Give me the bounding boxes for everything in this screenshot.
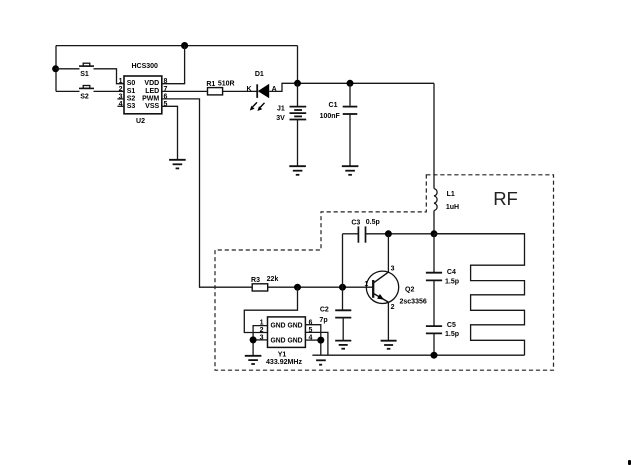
IC U2 HCS300 body: [124, 63, 162, 125]
svg-text:U2: U2: [136, 118, 145, 125]
node junction dot Y1 right ground bus: [317, 337, 324, 344]
svg-text:510R: 510R: [218, 81, 235, 88]
wire S1 row left: [56, 68, 80, 70]
U2 pin number 2: [119, 86, 123, 93]
U2 pin name S2: [127, 96, 136, 103]
node junction dot collector / RF rail: [385, 230, 392, 237]
node junction dot bottom rail / C5 column: [431, 352, 438, 359]
wire Y1 pin3 stub: [253, 339, 267, 341]
wire power rail to antenna column: [298, 82, 435, 84]
svg-text:5: 5: [164, 101, 168, 108]
wire Q2 collector up to RF rail: [387, 234, 389, 272]
capacitor C5 1.5p: [426, 280, 459, 355]
wire left vertical bus: [55, 46, 57, 92]
switch S1: [79, 63, 94, 78]
svg-text:1: 1: [364, 281, 368, 288]
svg-text:S1: S1: [127, 88, 136, 95]
wire U2 pin8 to top rail: [162, 46, 185, 84]
U2 pin name S1: [127, 88, 136, 95]
Y1 pin number 1: [260, 320, 264, 327]
wire C3/C2 column (collector feedback to base): [342, 234, 344, 310]
node junction dot power rail / battery: [294, 80, 301, 87]
wire L1 bottom to RF rail: [433, 211, 435, 234]
battery J1 3V: [276, 83, 306, 166]
node junction dot top rail / VDD tap: [181, 42, 188, 49]
svg-text:3V: 3V: [276, 115, 285, 122]
wire U2 pin3 stub: [117, 98, 124, 100]
U2 pin number 3: [119, 94, 123, 101]
svg-text:VSS: VSS: [145, 103, 159, 110]
wire Q2 emitter down to ground: [387, 303, 389, 341]
wire D1 anode jog up to power rail: [269, 83, 297, 91]
svg-text:2: 2: [391, 304, 395, 311]
wire bottom ground rail: [312, 354, 524, 356]
svg-text:Q2: Q2: [405, 287, 414, 294]
svg-text:1.5p: 1.5p: [445, 331, 459, 338]
ground Y1 left: [245, 356, 262, 364]
svg-text:VDD: VDD: [144, 80, 159, 87]
wire RF top rail C3 row: [343, 233, 359, 235]
svg-text:LED: LED: [145, 88, 159, 95]
antenna meander trace: [434, 234, 525, 355]
svg-text:R3: R3: [251, 277, 260, 284]
svg-text:L1: L1: [447, 191, 455, 198]
svg-text:0.5p: 0.5p: [366, 219, 380, 226]
capacitor C4 1.5p: [426, 234, 459, 286]
wire U2 pin7 to R1: [162, 90, 208, 92]
ground Q2 emitter: [381, 341, 397, 349]
U2 pin name VSS: [145, 103, 159, 110]
Y1 pin number 6: [309, 320, 313, 327]
U2 pin number 7: [164, 86, 168, 93]
wire R1 to D1 cathode: [223, 90, 257, 92]
node junction dot L1 / RF rail: [431, 230, 438, 237]
wire U2 pin4 stub: [117, 105, 124, 107]
net label RF: [493, 188, 518, 209]
svg-text:22k: 22k: [267, 276, 279, 283]
svg-text:S1: S1: [80, 71, 89, 78]
wire S2 row right to U2 pin2: [94, 90, 125, 92]
U2 pin number 8: [164, 78, 168, 85]
svg-text:1.5p: 1.5p: [445, 278, 459, 285]
crystal Y1 433.92MHz: [266, 317, 305, 366]
node junction dot Y1 left ground bus: [250, 336, 257, 343]
U2 pin name PWM: [142, 96, 159, 103]
svg-text:HCS300: HCS300: [131, 63, 158, 70]
inductor L1 1uH: [434, 189, 459, 211]
svg-text:3: 3: [260, 335, 264, 342]
svg-text:C1: C1: [329, 102, 338, 109]
wire R3 to base node: [268, 286, 373, 288]
ground Y1 right below rail: [316, 360, 326, 364]
svg-text:C4: C4: [447, 269, 456, 276]
svg-text:J1: J1: [277, 106, 285, 113]
svg-text:C5: C5: [447, 322, 456, 329]
U2 pin name S0: [127, 80, 136, 87]
svg-text:C2: C2: [320, 307, 329, 314]
node junction dot at left bus / S1 row: [52, 65, 59, 72]
ground J1: [289, 166, 306, 175]
wire Y1 pin4 to right ground bus: [305, 339, 320, 341]
svg-text:S3: S3: [127, 103, 136, 110]
U2 pin number 6: [164, 94, 168, 101]
U2 pin number 4: [119, 101, 123, 108]
svg-text:GND GND: GND GND: [271, 322, 303, 329]
resistor R3 22k: [251, 276, 278, 291]
svg-text:433.92MHz: 433.92MHz: [266, 359, 303, 366]
svg-text:S0: S0: [127, 80, 136, 87]
wire C3 to collector node and L1 node: [366, 233, 525, 235]
svg-text:Y1: Y1: [278, 351, 287, 358]
svg-text:GND GND: GND GND: [271, 337, 303, 344]
wire top rail from S1/S2 node to battery column: [56, 45, 298, 47]
RF dashed enclosure: [215, 175, 554, 370]
capacitor C3 0.5p: [351, 219, 379, 243]
Y1 pin number 2: [260, 327, 264, 334]
node junction dot power rail / C1: [347, 80, 354, 87]
capacitor C2 7p: [319, 307, 351, 341]
ground C1: [342, 166, 359, 175]
wire S2 row left: [56, 90, 80, 92]
U2 pin number 5: [164, 101, 168, 108]
svg-text:C3: C3: [351, 220, 360, 227]
svg-text:2sc3356: 2sc3356: [400, 299, 427, 306]
svg-text:2: 2: [260, 327, 264, 334]
svg-text:1uH: 1uH: [446, 204, 459, 211]
svg-text:S2: S2: [80, 93, 89, 100]
switch S2: [79, 86, 94, 101]
ground U2 VSS: [169, 160, 186, 169]
svg-text:D1: D1: [255, 71, 264, 78]
wire Y1 pin6 to right ground bus: [305, 325, 320, 356]
svg-text:6: 6: [309, 320, 313, 327]
wire battery top drop: [297, 46, 299, 84]
ground C2: [335, 341, 351, 349]
wire crystal feed from R3 node down-left to Y1 pin2: [244, 287, 297, 332]
capacitor C1 100nF: [320, 83, 358, 166]
svg-text:100nF: 100nF: [320, 113, 341, 120]
wire U2 pin5 VSS to ground: [162, 106, 178, 159]
wire U2 pin6 PWM down to R3: [162, 99, 252, 287]
wire Y1 pin5 to bottom rail: [305, 332, 328, 355]
svg-text:PWM: PWM: [142, 96, 159, 103]
svg-text:7p: 7p: [319, 317, 327, 324]
U2 pin name S3: [127, 103, 136, 110]
U2 pin name LED: [145, 88, 159, 95]
node junction dot base / C2-C3 column: [339, 284, 346, 291]
node junction dot R3 output / crystal tap: [294, 284, 301, 291]
Y1 pin number 4: [309, 335, 313, 342]
svg-text:2: 2: [119, 86, 123, 93]
transistor Q2 2sc3356: [364, 266, 426, 312]
Y1 pin number 3: [260, 335, 264, 342]
wire Y1 pin1 to ground bus: [253, 326, 267, 356]
corner artifact mark: [628, 460, 631, 465]
diode D1 LED: [247, 71, 277, 111]
svg-text:4: 4: [119, 101, 123, 108]
wire S1 row right to U2 pin1: [94, 69, 125, 84]
U2 pin name VDD: [144, 80, 159, 87]
svg-text:3: 3: [391, 266, 395, 273]
Y1 pin number 5: [309, 327, 313, 334]
svg-text:S2: S2: [127, 96, 136, 103]
svg-text:1: 1: [119, 78, 123, 85]
U2 pin number 1: [119, 78, 123, 85]
svg-text:R1: R1: [206, 81, 215, 88]
wire antenna column down to L1: [433, 83, 435, 188]
resistor R1 510R: [206, 81, 234, 95]
svg-text:RF: RF: [493, 188, 518, 209]
svg-text:K: K: [247, 86, 252, 93]
